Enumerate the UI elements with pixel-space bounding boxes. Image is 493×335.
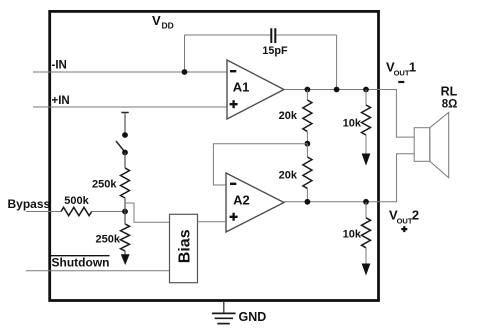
svg-text:250k: 250k: [96, 234, 121, 246]
wire Bias output to A2+: [198, 221, 227, 223]
node -IN feedback junction: [182, 69, 188, 75]
wire feedback top left: [185, 34, 271, 36]
resistor 500k: [61, 207, 92, 215]
svg-text:-IN: -IN: [52, 60, 67, 72]
svg-text:10k: 10k: [343, 117, 362, 129]
svg-text:GND: GND: [239, 310, 267, 324]
svg-text:RL: RL: [441, 84, 458, 98]
switch S1: [121, 112, 128, 114]
svg-text:1: 1: [409, 60, 416, 75]
wire +IN: [33, 106, 227, 108]
wire feedback left vertical: [184, 35, 186, 72]
svg-text:2: 2: [412, 207, 419, 222]
node 10k tap: [363, 87, 369, 93]
node A2 out: [305, 199, 311, 205]
wire feedback right vertical: [336, 35, 338, 90]
wire Bypass: [26, 211, 61, 213]
svg-text:250k: 250k: [92, 179, 117, 191]
resistor 20k lower: [306, 144, 308, 157]
wire divider tap to Bias: [125, 203, 170, 222]
svg-text:Bias: Bias: [177, 229, 194, 263]
svg-text:A2: A2: [233, 193, 250, 208]
node bypass junction: [122, 209, 128, 215]
speaker RL: [414, 128, 430, 162]
IC boundary box: [50, 11, 379, 300]
svg-text:DD: DD: [162, 21, 174, 31]
wire A2 feedback: [213, 144, 307, 185]
wire Shutdown: [26, 270, 170, 272]
label Shutdown with overline: [51, 255, 110, 257]
svg-text:+IN: +IN: [52, 95, 70, 107]
node 10k lower tap: [363, 199, 369, 205]
ground: [223, 301, 225, 313]
svg-text:OUT: OUT: [394, 69, 410, 78]
Bias block: [170, 214, 198, 282]
svg-text:Bypass: Bypass: [8, 197, 51, 211]
svg-text:V: V: [152, 13, 161, 28]
wire -IN: [33, 71, 227, 73]
svg-text:10k: 10k: [343, 229, 362, 241]
capacitor C1 15pF: [271, 28, 275, 43]
resistor 10k lower: [365, 202, 367, 218]
op-amp A2: [226, 173, 284, 232]
wire A1 output to speaker: [284, 90, 414, 138]
svg-text:Shutdown: Shutdown: [52, 256, 110, 270]
resistor 20k upper: [306, 90, 308, 101]
resistor 10k upper: [365, 90, 367, 106]
node feedback tap: [334, 87, 340, 93]
svg-text:A1: A1: [233, 80, 250, 95]
node 20k junction: [305, 141, 311, 147]
node A1 out: [305, 87, 311, 93]
svg-text:20k: 20k: [279, 110, 298, 122]
svg-text:20k: 20k: [279, 170, 298, 182]
op-amp A1: [227, 60, 284, 119]
resistor 250k lower: [124, 212, 126, 225]
wire feedback top right: [276, 34, 336, 36]
svg-text:15pF: 15pF: [262, 45, 288, 57]
resistor 250k upper: [124, 153, 126, 169]
svg-text:500k: 500k: [64, 195, 89, 207]
wire A2 output to speaker: [284, 154, 414, 202]
svg-text:OUT: OUT: [397, 217, 413, 226]
svg-text:8Ω: 8Ω: [442, 99, 458, 111]
